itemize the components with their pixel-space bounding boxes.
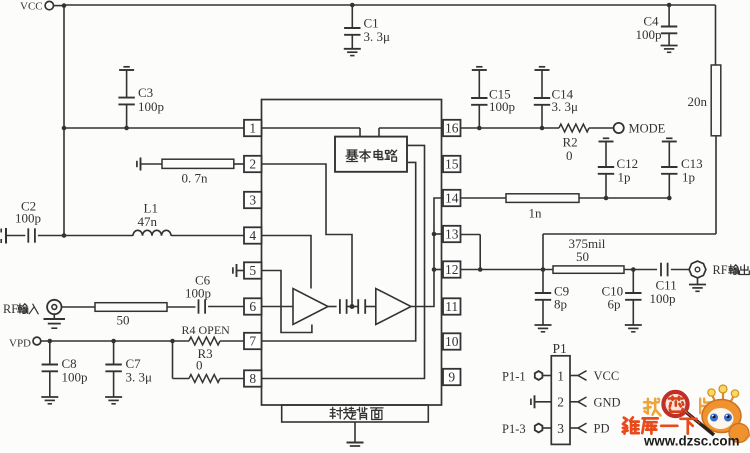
svg-text:4: 4 xyxy=(249,228,256,243)
svg-text:VPD: VPD xyxy=(9,337,31,349)
svg-text:MODE: MODE xyxy=(629,122,666,136)
svg-text:R4 OPEN: R4 OPEN xyxy=(182,323,231,337)
svg-text:1p: 1p xyxy=(682,170,695,185)
svg-text:3. 3μ: 3. 3μ xyxy=(364,29,391,44)
svg-text:100p: 100p xyxy=(636,27,662,42)
svg-text:RF: RF xyxy=(713,263,728,277)
svg-text:47n: 47n xyxy=(138,214,158,229)
svg-text:100p: 100p xyxy=(650,291,676,306)
svg-text:13: 13 xyxy=(445,227,459,242)
svg-text:P1: P1 xyxy=(553,341,567,356)
svg-text:9: 9 xyxy=(448,370,455,385)
svg-text:GND: GND xyxy=(594,396,621,410)
svg-text:2: 2 xyxy=(557,395,564,410)
svg-text:100p: 100p xyxy=(138,99,164,114)
svg-text:5: 5 xyxy=(249,263,256,278)
svg-text:7: 7 xyxy=(249,334,256,349)
svg-text:PD: PD xyxy=(594,422,610,436)
svg-text:VCC: VCC xyxy=(594,369,620,383)
svg-text:15: 15 xyxy=(445,157,459,172)
svg-text:10: 10 xyxy=(445,334,459,349)
svg-text:6: 6 xyxy=(249,299,256,314)
svg-text:3: 3 xyxy=(249,193,256,208)
svg-text:50: 50 xyxy=(576,249,589,264)
svg-text:3. 3μ: 3. 3μ xyxy=(126,370,153,385)
svg-text:C3: C3 xyxy=(138,85,153,100)
svg-text:14: 14 xyxy=(445,191,459,206)
svg-text:www.dzsc.com: www.dzsc.com xyxy=(643,434,740,449)
svg-text:1: 1 xyxy=(557,368,564,383)
svg-text:8p: 8p xyxy=(554,297,567,312)
svg-text:P1-1: P1-1 xyxy=(502,370,526,384)
svg-text:0: 0 xyxy=(566,148,573,163)
svg-text:6p: 6p xyxy=(608,297,621,312)
svg-text:100p: 100p xyxy=(62,370,88,385)
svg-text:1n: 1n xyxy=(529,206,543,221)
svg-text:12: 12 xyxy=(445,262,459,277)
svg-text:100p: 100p xyxy=(185,286,211,301)
svg-text:20n: 20n xyxy=(688,94,708,109)
svg-text:100p: 100p xyxy=(15,211,41,226)
svg-text:RF: RF xyxy=(3,302,18,316)
svg-text:1p: 1p xyxy=(618,170,631,185)
svg-text:P1-3: P1-3 xyxy=(502,422,526,436)
svg-text:16: 16 xyxy=(445,121,459,136)
svg-text:0. 7n: 0. 7n xyxy=(182,171,209,186)
svg-text:50: 50 xyxy=(117,313,130,328)
svg-text:0: 0 xyxy=(196,358,203,373)
svg-text:100p: 100p xyxy=(489,99,515,114)
svg-text:1: 1 xyxy=(249,121,256,136)
svg-text:2: 2 xyxy=(249,157,256,172)
svg-text:VCC: VCC xyxy=(20,1,43,13)
svg-text:11: 11 xyxy=(445,299,458,314)
svg-text:3: 3 xyxy=(557,421,564,436)
svg-text:8: 8 xyxy=(249,371,256,386)
svg-text:3. 3μ: 3. 3μ xyxy=(552,99,579,114)
